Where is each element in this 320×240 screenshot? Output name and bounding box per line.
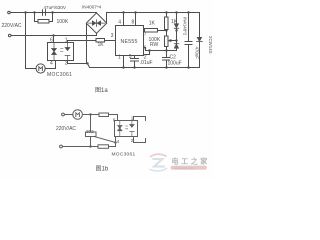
pin1 lead out — [134, 117, 146, 121]
svg-text:100K: 100K — [57, 19, 69, 25]
watermark logo 电工之家 — [150, 154, 210, 171]
node DC- junction — [86, 62, 88, 64]
capacitor C3 470uF — [185, 13, 192, 68]
svg-text:4: 4 — [117, 139, 120, 144]
svg-text:IN4148*2: IN4148*2 — [183, 17, 188, 36]
bottom rail fig1b — [62, 146, 115, 148]
svg-text:3: 3 — [111, 33, 114, 39]
capacitor C2 100uF — [163, 58, 170, 68]
svg-text:470uF: 470uF — [195, 47, 200, 60]
capacitor C .01uF — [131, 59, 139, 68]
pin 2 stub — [144, 51, 150, 55]
svg-text:www.dgzj.com: www.dgzj.com — [175, 166, 195, 170]
wire top AC line — [10, 12, 96, 14]
node snubber tap — [89, 113, 91, 115]
bridge B1 IN4007x4 — [86, 13, 106, 33]
terminal T2 220VAC bottom — [8, 34, 11, 37]
triac symbol inside MOC — [52, 43, 57, 61]
svg-text:2: 2 — [131, 138, 134, 143]
resistor R bottom fig1b — [98, 145, 109, 149]
optocoupler U2 MOC3061 box — [48, 43, 74, 61]
wire motor to resistor — [83, 114, 100, 116]
svg-text:电工之家: 电工之家 — [172, 157, 210, 166]
svg-text:图1a: 图1a — [95, 87, 108, 94]
svg-text:220V/AC: 220V/AC — [56, 126, 76, 132]
snubber cap 202 column — [90, 115, 92, 147]
svg-text:220V/AC: 220V/AC — [2, 23, 22, 29]
optocoupler U3 MOC3061 box — [115, 121, 138, 137]
svg-text:202: 202 — [86, 129, 94, 134]
svg-text:6: 6 — [50, 38, 53, 44]
triac symbol inside — [118, 121, 123, 137]
zener DW on right edge — [199, 13, 201, 68]
node combo-left — [33, 11, 35, 13]
node top-motor-branch — [24, 11, 26, 13]
svg-text:RW: RW — [150, 42, 159, 48]
ground rail — [90, 67, 200, 69]
svg-text:100uF: 100uF — [168, 61, 182, 67]
wire motor branch vertical — [26, 13, 37, 69]
svg-text:MOC3061: MOC3061 — [47, 72, 72, 78]
capacitor C 47uF/630V — [43, 10, 46, 16]
wire pot bottom — [166, 47, 168, 58]
wire MOC pin2 to gnd rail — [68, 61, 88, 64]
svg-text:4: 4 — [118, 20, 121, 26]
svg-text:MOC3061: MOC3061 — [112, 152, 136, 158]
svg-text:2CW14S: 2CW14S — [208, 36, 213, 54]
svg-text:1K: 1K — [98, 42, 105, 48]
LED symbol inside — [130, 121, 135, 137]
svg-text:图1b: 图1b — [96, 166, 109, 173]
pin 8 stub — [135, 13, 137, 26]
pin4 stub — [115, 137, 117, 147]
resistor R 1K (555 out to MOC) — [96, 39, 105, 43]
wire MOC pin1 to resistor — [68, 41, 97, 43]
terminal T4 fig1b — [60, 145, 63, 148]
IC U1 NE555 box — [116, 26, 144, 56]
wire gnd jog — [88, 64, 90, 68]
wire bridge DC+ to VCC rail — [107, 13, 200, 24]
svg-text:6: 6 — [144, 46, 147, 52]
svg-text:1: 1 — [118, 54, 121, 60]
svg-text:47uF/630V: 47uF/630V — [44, 5, 67, 10]
node combo-right — [51, 11, 53, 13]
wire MOC pin6 stub — [53, 36, 55, 43]
wire to motor — [65, 114, 73, 116]
wire AC2 line — [11, 35, 97, 37]
pin 4 stub — [123, 13, 125, 26]
wiper arrow — [170, 40, 177, 42]
resistor R top fig1b — [99, 113, 109, 117]
motor M2 — [73, 110, 83, 120]
wire resistor to pin3 — [105, 40, 116, 42]
resistor R 1K from VCC — [166, 13, 168, 18]
wire bridge DC- drop — [86, 23, 88, 63]
svg-text:IN4007*4: IN4007*4 — [82, 5, 102, 10]
svg-text:1K: 1K — [149, 21, 156, 27]
terminal T1 220VAC top — [8, 11, 11, 14]
diode column D1 D2 IN4148 — [176, 13, 178, 51]
node MOC pin6 tap — [52, 34, 54, 36]
svg-text:.01uF: .01uF — [140, 60, 153, 66]
resistor R 1K discharge — [145, 29, 158, 33]
node line 2-6 — [146, 50, 177, 52]
LED symbol inside MOC — [65, 43, 70, 61]
terminal T3 fig1b — [62, 113, 65, 116]
resistor 100K snubber branch — [35, 13, 53, 22]
motor M1 — [36, 64, 45, 73]
svg-text:1: 1 — [131, 116, 134, 121]
wire bridge AC2 stub — [96, 33, 98, 35]
svg-text:NE555: NE555 — [121, 39, 138, 45]
pin 5 stub — [134, 56, 136, 59]
node A — [165, 29, 167, 31]
svg-text:5: 5 — [129, 54, 132, 60]
svg-text:4: 4 — [50, 61, 53, 67]
svg-text:8: 8 — [132, 20, 135, 26]
potentiometer RW 100K — [166, 31, 168, 37]
pin 6 stub — [144, 48, 146, 51]
pin 7 stub and label — [144, 30, 145, 32]
wire R to node A — [158, 30, 167, 32]
pin2 lead out — [134, 137, 146, 143]
wire motor to MOC pin4 — [45, 61, 55, 69]
pin 1 stub to gnd — [123, 56, 125, 68]
diagonal snubber wire — [93, 136, 116, 142]
wire to MOC pin6 — [109, 115, 118, 121]
